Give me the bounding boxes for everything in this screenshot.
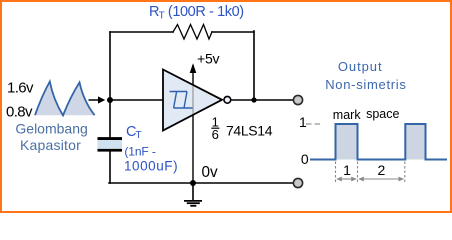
svg-text:6: 6	[212, 127, 219, 142]
svg-text:1.6v: 1.6v	[7, 79, 34, 96]
svg-text:mark: mark	[333, 108, 362, 122]
svg-text:0v: 0v	[202, 164, 219, 181]
svg-text:Kapasitor: Kapasitor	[20, 137, 81, 153]
svg-text:1: 1	[299, 114, 307, 130]
svg-text:1: 1	[343, 162, 351, 178]
svg-text:+5v: +5v	[197, 51, 220, 67]
svg-text:Non-simetris: Non-simetris	[325, 77, 406, 92]
svg-text:Output: Output	[338, 59, 383, 74]
svg-text:Gelombang: Gelombang	[15, 120, 87, 136]
svg-text:space: space	[366, 107, 399, 121]
svg-text:0: 0	[301, 151, 309, 167]
svg-text:74LS14: 74LS14	[226, 122, 273, 138]
svg-text:0.8v: 0.8v	[6, 103, 33, 120]
svg-text:1000uF): 1000uF)	[124, 159, 178, 174]
svg-text:2: 2	[378, 162, 386, 178]
svg-text:(1nF -: (1nF -	[124, 145, 156, 159]
